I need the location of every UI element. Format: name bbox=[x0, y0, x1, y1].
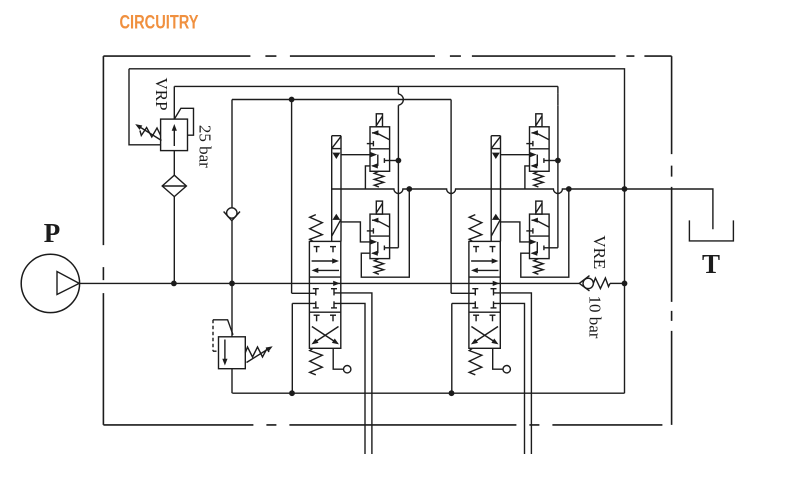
node supply-diamond bbox=[171, 281, 177, 287]
relief pilot loop bbox=[213, 320, 233, 335]
pump P circle bbox=[21, 254, 79, 312]
tank line H2 bbox=[129, 69, 625, 393]
check valve on pilot line bbox=[227, 208, 237, 218]
relief pilot vertical from H4 bbox=[231, 100, 233, 208]
bottom drain line bbox=[232, 392, 624, 394]
gauge isolator diamond bbox=[162, 175, 186, 196]
VRE back pressure valve bbox=[579, 276, 589, 291]
tank symbol bbox=[689, 220, 733, 241]
svg-text:VRE: VRE bbox=[590, 235, 609, 269]
VRP top line to H3 bbox=[173, 86, 175, 119]
node drain-tank vertical bbox=[622, 186, 628, 192]
supply line from pump bbox=[80, 282, 580, 284]
tank branch line bbox=[625, 189, 713, 229]
pump triangle bbox=[57, 272, 79, 295]
relief valve VRP body bbox=[161, 119, 188, 151]
pilot supply line H3 bbox=[174, 85, 558, 87]
VRP pilot loop bbox=[174, 108, 193, 135]
VRP lower line bbox=[173, 151, 175, 176]
VRP spring bbox=[140, 128, 161, 138]
svg-text:25 bar: 25 bar bbox=[195, 125, 214, 168]
valve section 2 bbox=[449, 86, 572, 454]
pilot line H4 bbox=[232, 99, 451, 101]
relief flow arrow bbox=[224, 340, 226, 363]
diamond to supply line bbox=[173, 197, 175, 284]
svg-text:10 bar: 10 bar bbox=[586, 296, 605, 339]
node H4 branch bbox=[289, 97, 295, 103]
VRP drain line left bbox=[129, 69, 161, 145]
feed arc over H4 (section1) bbox=[398, 94, 403, 105]
feed connector (section2) bbox=[557, 94, 559, 105]
svg-text:VRP: VRP bbox=[152, 77, 171, 110]
node supply-relief bbox=[229, 281, 235, 287]
VRP flow arrow bbox=[173, 127, 175, 147]
VRP adjust arrow bbox=[138, 126, 162, 141]
svg-text:P: P bbox=[44, 218, 61, 248]
valve section 1 bbox=[289, 86, 412, 454]
relief spring bbox=[245, 347, 269, 357]
node VRE-tank vertical bbox=[622, 281, 628, 287]
pilot drain collector line bbox=[332, 189, 625, 194]
relief outlet to drain bbox=[231, 369, 233, 394]
svg-text:T: T bbox=[702, 249, 720, 279]
relief adjust arrow bbox=[247, 348, 271, 363]
line supply to relief valve bbox=[231, 283, 233, 336]
dashed enclosure boundary bbox=[103, 55, 671, 57]
secondary relief valve body bbox=[219, 337, 246, 369]
svg-text:CIRCUITRY: CIRCUITRY bbox=[120, 11, 199, 33]
